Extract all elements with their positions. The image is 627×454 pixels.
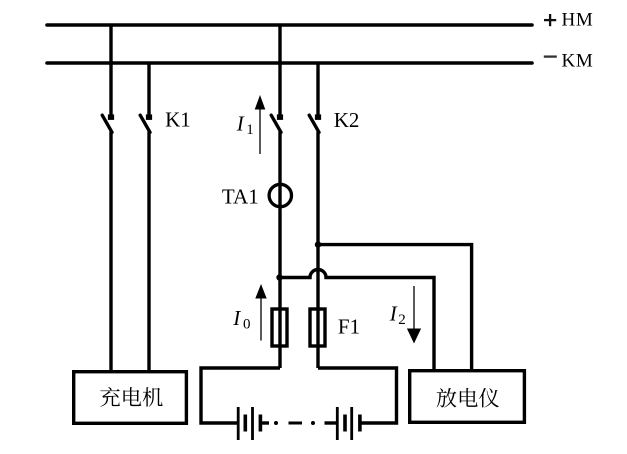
svg-text:I: I bbox=[232, 306, 241, 330]
svg-text:I: I bbox=[389, 302, 398, 326]
svg-text:0: 0 bbox=[243, 316, 251, 332]
svg-text:TA1: TA1 bbox=[222, 184, 259, 208]
svg-text:I: I bbox=[236, 112, 245, 136]
svg-text:F1: F1 bbox=[338, 314, 360, 338]
svg-text:HM: HM bbox=[562, 10, 594, 31]
svg-text:KM: KM bbox=[562, 50, 594, 71]
svg-text:K2: K2 bbox=[334, 108, 360, 132]
svg-text:K1: K1 bbox=[165, 108, 191, 132]
svg-text:1: 1 bbox=[246, 122, 254, 138]
svg-text:2: 2 bbox=[398, 312, 406, 328]
